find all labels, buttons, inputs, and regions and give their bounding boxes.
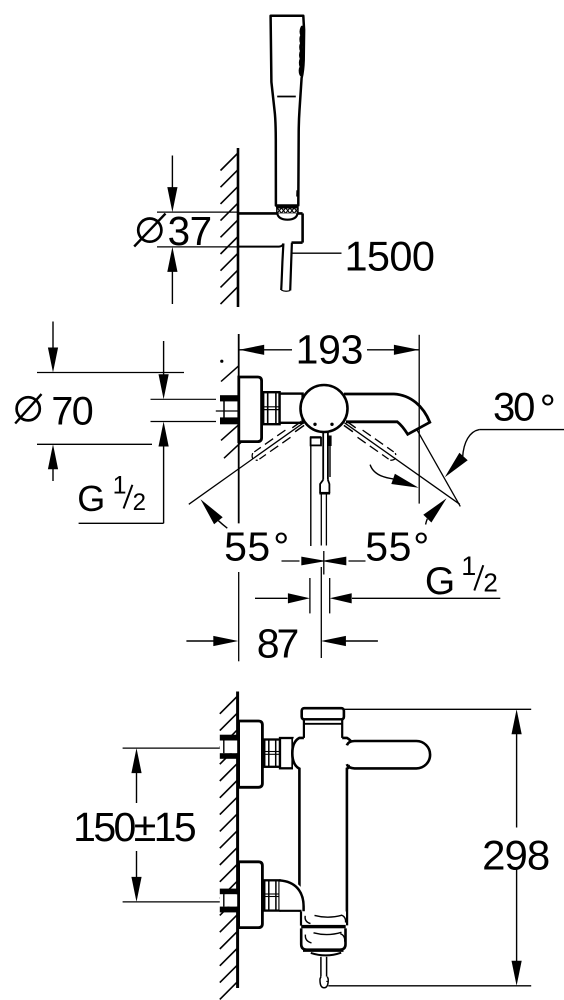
leader line 1500 bbox=[292, 252, 341, 254]
svg-text:298: 298 bbox=[482, 831, 549, 878]
wall (bottom section) bbox=[236, 692, 239, 989]
lever edge marks near ball (right) bbox=[344, 425, 353, 431]
spout angle line 30deg bbox=[417, 430, 460, 507]
arrow at crossing (30/55) bbox=[423, 498, 446, 522]
dim Ø70 extension lines bbox=[37, 372, 184, 374]
mixer body column (side) bbox=[293, 739, 354, 926]
wall hatching (bottom) bbox=[220, 696, 238, 714]
flange top (side) bbox=[239, 721, 263, 787]
connector top (side) bbox=[280, 738, 293, 768]
dashed lever outline (right) bbox=[358, 437, 389, 459]
lever swing line right 55deg bbox=[345, 423, 460, 505]
union nut top (side) bbox=[264, 740, 280, 767]
lever (front view, hanging down) bbox=[310, 436, 321, 439]
svg-text:1: 1 bbox=[461, 551, 476, 581]
spout outline bbox=[344, 394, 430, 434]
pipe thread dim (G 1/2 leader) bbox=[163, 341, 165, 376]
shower pause button notch bbox=[296, 190, 299, 197]
wall (middle section) bbox=[238, 334, 240, 523]
union nut (front) bbox=[263, 392, 279, 424]
supply pipe stub (middle) bbox=[220, 395, 238, 401]
wall hatching (middle) bbox=[221, 366, 239, 382]
dim 150±15 extension lines bbox=[123, 747, 237, 749]
svg-text:30: 30 bbox=[493, 386, 534, 430]
dim Ø70 arrows bbox=[52, 322, 54, 350]
lever swing line left 55deg bbox=[189, 423, 304, 505]
dashed lever outline (left) bbox=[254, 430, 285, 452]
outlet cup section 2 bbox=[301, 928, 345, 949]
union nut bottom (side) bbox=[264, 880, 279, 910]
label Ø37 bbox=[138, 219, 161, 242]
holder bracket bbox=[238, 212, 303, 215]
outlet nipple bbox=[320, 957, 322, 977]
shower hose bbox=[281, 243, 283, 290]
arc+arrow right 55deg bbox=[370, 465, 393, 479]
dim 193 extension line (right) bbox=[418, 335, 420, 392]
G 1/2 outlet dim (right) bbox=[309, 578, 311, 613]
svg-text:1500: 1500 bbox=[344, 232, 434, 279]
svg-text:1: 1 bbox=[113, 472, 127, 500]
svg-text:G: G bbox=[425, 560, 455, 603]
shower hose nut bbox=[276, 205, 299, 208]
shower head divider line bbox=[277, 96, 296, 98]
arc+arrow from 30deg label bbox=[463, 430, 480, 458]
supply pipe top (side) bbox=[220, 741, 238, 754]
shower hose nut dome bbox=[277, 213, 297, 219]
wall hatching (top) bbox=[221, 153, 239, 171]
dim 298 line + arrows bbox=[512, 709, 522, 734]
svg-text:°: ° bbox=[540, 387, 556, 431]
wall (top section) bbox=[237, 148, 240, 307]
dim 298 extension lines bbox=[344, 708, 531, 710]
svg-text:55: 55 bbox=[224, 523, 271, 569]
column neck bbox=[304, 719, 342, 738]
lever extension lines down bbox=[320, 493, 322, 545]
label Ø70 bbox=[17, 397, 40, 420]
connector piece (front) bbox=[280, 394, 303, 423]
dim Ø37 extension lines bbox=[157, 211, 238, 213]
dim 150±15 line + arrows bbox=[131, 748, 141, 773]
flange escutcheon (front) bbox=[239, 377, 262, 442]
hand shower body bbox=[271, 16, 305, 206]
svg-text:2: 2 bbox=[483, 568, 497, 598]
dim 87 bbox=[320, 567, 322, 658]
svg-text:70: 70 bbox=[51, 390, 92, 434]
supply pipe bottom (side) bbox=[220, 894, 238, 906]
svg-text:37: 37 bbox=[168, 208, 212, 254]
svg-text:87: 87 bbox=[257, 621, 298, 667]
dim Ø37 vertical line + arrows bbox=[171, 156, 173, 190]
shower spray nozzles (jagged band) bbox=[300, 28, 302, 75]
30deg label underline bbox=[479, 429, 564, 431]
svg-text:193: 193 bbox=[296, 327, 364, 373]
column cap bbox=[302, 708, 344, 719]
arc+arrow left 55deg bbox=[201, 499, 223, 524]
outlet cup divider bbox=[301, 925, 346, 929]
svg-text:G: G bbox=[77, 478, 105, 519]
elbow to shower outlet bbox=[280, 880, 304, 911]
lever arm (side view) bbox=[350, 742, 418, 767]
outlet cup section 1 bbox=[302, 912, 346, 926]
svg-text:150±15: 150±15 bbox=[73, 804, 196, 850]
svg-text:55: 55 bbox=[365, 523, 412, 569]
dim 193 line + arrows bbox=[239, 349, 292, 351]
small width dim (bowtie) bbox=[323, 551, 325, 575]
svg-text:°: ° bbox=[273, 526, 289, 570]
svg-text:2: 2 bbox=[133, 489, 146, 516]
lever edge marks near ball (left) bbox=[292, 421, 301, 427]
outlet bottom dome bbox=[311, 953, 341, 956]
ball body bbox=[301, 385, 348, 432]
spout (fill) bbox=[344, 394, 430, 434]
flange bottom (side) bbox=[239, 862, 263, 928]
30 deg vertical reference line bbox=[418, 392, 420, 504]
